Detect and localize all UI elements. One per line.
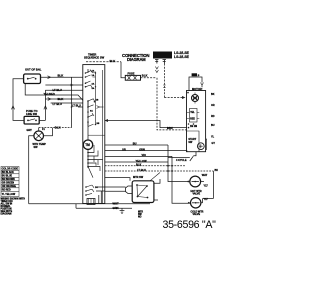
timer label <box>84 53 105 60</box>
timer bottom terminal box <box>87 199 95 205</box>
wire YEL2 to motor sw <box>105 178 130 181</box>
svg-text:Y17: Y17 <box>204 184 209 187</box>
model label LS-2/LSE <box>174 51 190 59</box>
svg-text:6A: 6A <box>90 110 93 113</box>
svg-text:5B: 5B <box>97 123 100 125</box>
vertical to valve B <box>172 156 191 203</box>
wire fuse feed <box>86 61 121 63</box>
svg-text:BU BLUE: BU BLUE <box>2 176 13 178</box>
ground <box>120 208 125 213</box>
svg-text:YL YELLOW: YL YELLOW <box>2 194 16 196</box>
svg-text:GR GREEN: GR GREEN <box>2 183 15 185</box>
svg-text:BU: BU <box>211 124 215 127</box>
svg-text:Y17: Y17 <box>204 198 209 201</box>
wire blk dashed 127 <box>39 127 72 129</box>
timer lower contacts <box>85 185 98 196</box>
wire connector arrows line L1 <box>155 67 158 73</box>
wire v71 <box>71 77 73 127</box>
svg-text:LT BLU: LT BLU <box>137 168 146 172</box>
motor protector circle <box>192 95 199 102</box>
motor assembly box <box>187 91 206 152</box>
right edge labels <box>211 93 215 145</box>
svg-text:VIO: VIO <box>142 154 146 157</box>
wire dashed drop to motor <box>163 64 165 98</box>
svg-text:4 CYCLE: 4 CYCLE <box>176 159 187 162</box>
svg-text:BK: BK <box>215 169 219 172</box>
svg-text:BLK: BLK <box>110 59 116 63</box>
svg-text:RD: RD <box>211 115 215 118</box>
wire dashed drop to motor lower <box>157 78 187 130</box>
timer mid contacts <box>87 110 100 127</box>
model plate black box <box>153 52 172 59</box>
right edge vertical <box>169 170 214 172</box>
svg-text:3A: 3A <box>92 87 95 90</box>
wire LT BLU dashed <box>105 170 214 172</box>
wire YEL to cycle sw <box>105 161 168 163</box>
wire lt blu 90 <box>45 89 83 91</box>
bus taps <box>87 152 89 154</box>
svg-text:SW: SW <box>34 146 39 149</box>
svg-text:NO: NO <box>138 216 142 218</box>
timer bus <box>87 101 89 140</box>
svg-text:GRN: GRN <box>113 206 119 210</box>
start switch section <box>187 131 200 152</box>
wire fuse to connector <box>141 77 157 79</box>
svg-text:DIAGRAM: DIAGRAM <box>127 57 146 62</box>
svg-text:BK BLACK: BK BLACK <box>2 171 14 174</box>
svg-text:SEQUENCE SW: SEQUENCE SW <box>84 56 105 60</box>
wire left drop <box>13 79 24 121</box>
svg-text:VALVE: VALVE <box>193 192 201 195</box>
svg-text:WHT: WHT <box>202 174 208 177</box>
vertical to valve A <box>168 145 190 182</box>
cycle slash <box>168 157 190 159</box>
svg-text:BU: BU <box>133 142 137 146</box>
timer contacts top <box>85 70 96 78</box>
timer motor TM <box>83 140 92 149</box>
svg-text:BRN: BRN <box>167 126 173 130</box>
wire VIO <box>105 155 172 157</box>
switch left tab <box>126 186 133 194</box>
svg-text:BLK: BLK <box>55 126 61 130</box>
svg-text:1B: 1B <box>96 100 99 102</box>
timer contacts mid <box>87 99 99 103</box>
connector pins under plate <box>155 60 166 64</box>
svg-text:OR: OR <box>122 148 126 151</box>
bottom wire GRN with ground <box>76 204 132 209</box>
svg-text:BR BROWN: BR BROWN <box>2 179 15 181</box>
svg-text:35-6596 "A": 35-6596 "A" <box>163 219 217 231</box>
timer bottom drops <box>99 191 102 204</box>
svg-text:YELLOW: YELLOW <box>136 159 148 163</box>
color code table <box>1 167 19 197</box>
fan out wires inside timer <box>88 145 103 178</box>
svg-text:LS-2/LSE: LS-2/LSE <box>174 55 190 59</box>
svg-text:WHT: WHT <box>113 202 119 206</box>
switch to tangle <box>154 179 160 200</box>
switch box PUSH TO START <box>26 109 37 116</box>
svg-text:MOTOR: MOTOR <box>192 87 202 91</box>
wire box1 to timer <box>41 76 84 78</box>
svg-text:BLK: BLK <box>58 97 64 101</box>
wire GRN <box>105 151 187 152</box>
wire w85 <box>45 84 83 86</box>
svg-text:RED: RED <box>190 118 195 120</box>
title CONNECTION DIAGRAM <box>122 53 149 62</box>
svg-text:GY: GY <box>212 142 216 145</box>
overload loop <box>189 77 202 91</box>
wires to sw tab <box>105 187 126 191</box>
svg-text:RD RED: RD RED <box>2 190 11 192</box>
svg-text:COLOR CODE: COLOR CODE <box>2 168 19 171</box>
wire yel/red <box>25 84 83 101</box>
wire to motor BRN <box>105 121 187 128</box>
motor terminals <box>188 123 190 125</box>
notes under table <box>1 199 26 216</box>
svg-text:BLK: BLK <box>58 74 64 78</box>
svg-text:BLK: BLK <box>136 163 141 167</box>
node v45 <box>44 90 46 120</box>
svg-text:GRN: GRN <box>139 148 145 151</box>
svg-text:DIAGRAM: DIAGRAM <box>1 213 12 216</box>
wire lt blu 103 <box>51 102 83 104</box>
svg-text:1M 2M: 1M 2M <box>190 126 197 128</box>
svg-text:OR ORANGE: OR ORANGE <box>2 185 17 188</box>
svg-text:BK: BK <box>211 93 215 96</box>
svg-text:4A: 4A <box>92 70 95 73</box>
svg-text:BLK: BLK <box>142 73 148 77</box>
svg-text:GRY: GRY <box>27 129 33 132</box>
svg-text:1A: 1A <box>92 74 95 77</box>
svg-text:2A: 2A <box>92 83 95 86</box>
svg-text:YL: YL <box>211 136 215 139</box>
wire BLK dashed <box>105 165 186 167</box>
svg-text:YEL: YEL <box>190 112 195 114</box>
svg-text:OR: OR <box>211 104 215 107</box>
svg-text:MTR SW: MTR SW <box>133 176 144 179</box>
notes under pump <box>138 211 143 218</box>
svg-text:LINE SW: LINE SW <box>26 112 37 116</box>
water valve solenoid A <box>190 176 201 187</box>
svg-text:LT BLU: LT BLU <box>72 105 81 108</box>
svg-text:LT BLU: LT BLU <box>53 88 62 92</box>
svg-text:OUT OF BAL: OUT OF BAL <box>25 68 42 72</box>
long bottom wire WHT <box>29 203 150 205</box>
capacitor circle <box>197 143 204 150</box>
wire BU <box>105 144 168 146</box>
wire blk 99 <box>45 98 83 100</box>
svg-text:LT BLU: LT BLU <box>53 102 62 106</box>
svg-text:TM: TM <box>85 143 90 147</box>
svg-text:VALVE: VALVE <box>193 213 201 216</box>
junction dots right <box>167 165 169 167</box>
timer box <box>83 65 105 204</box>
motor windings labels <box>190 112 195 120</box>
solenoid B <box>191 198 201 208</box>
